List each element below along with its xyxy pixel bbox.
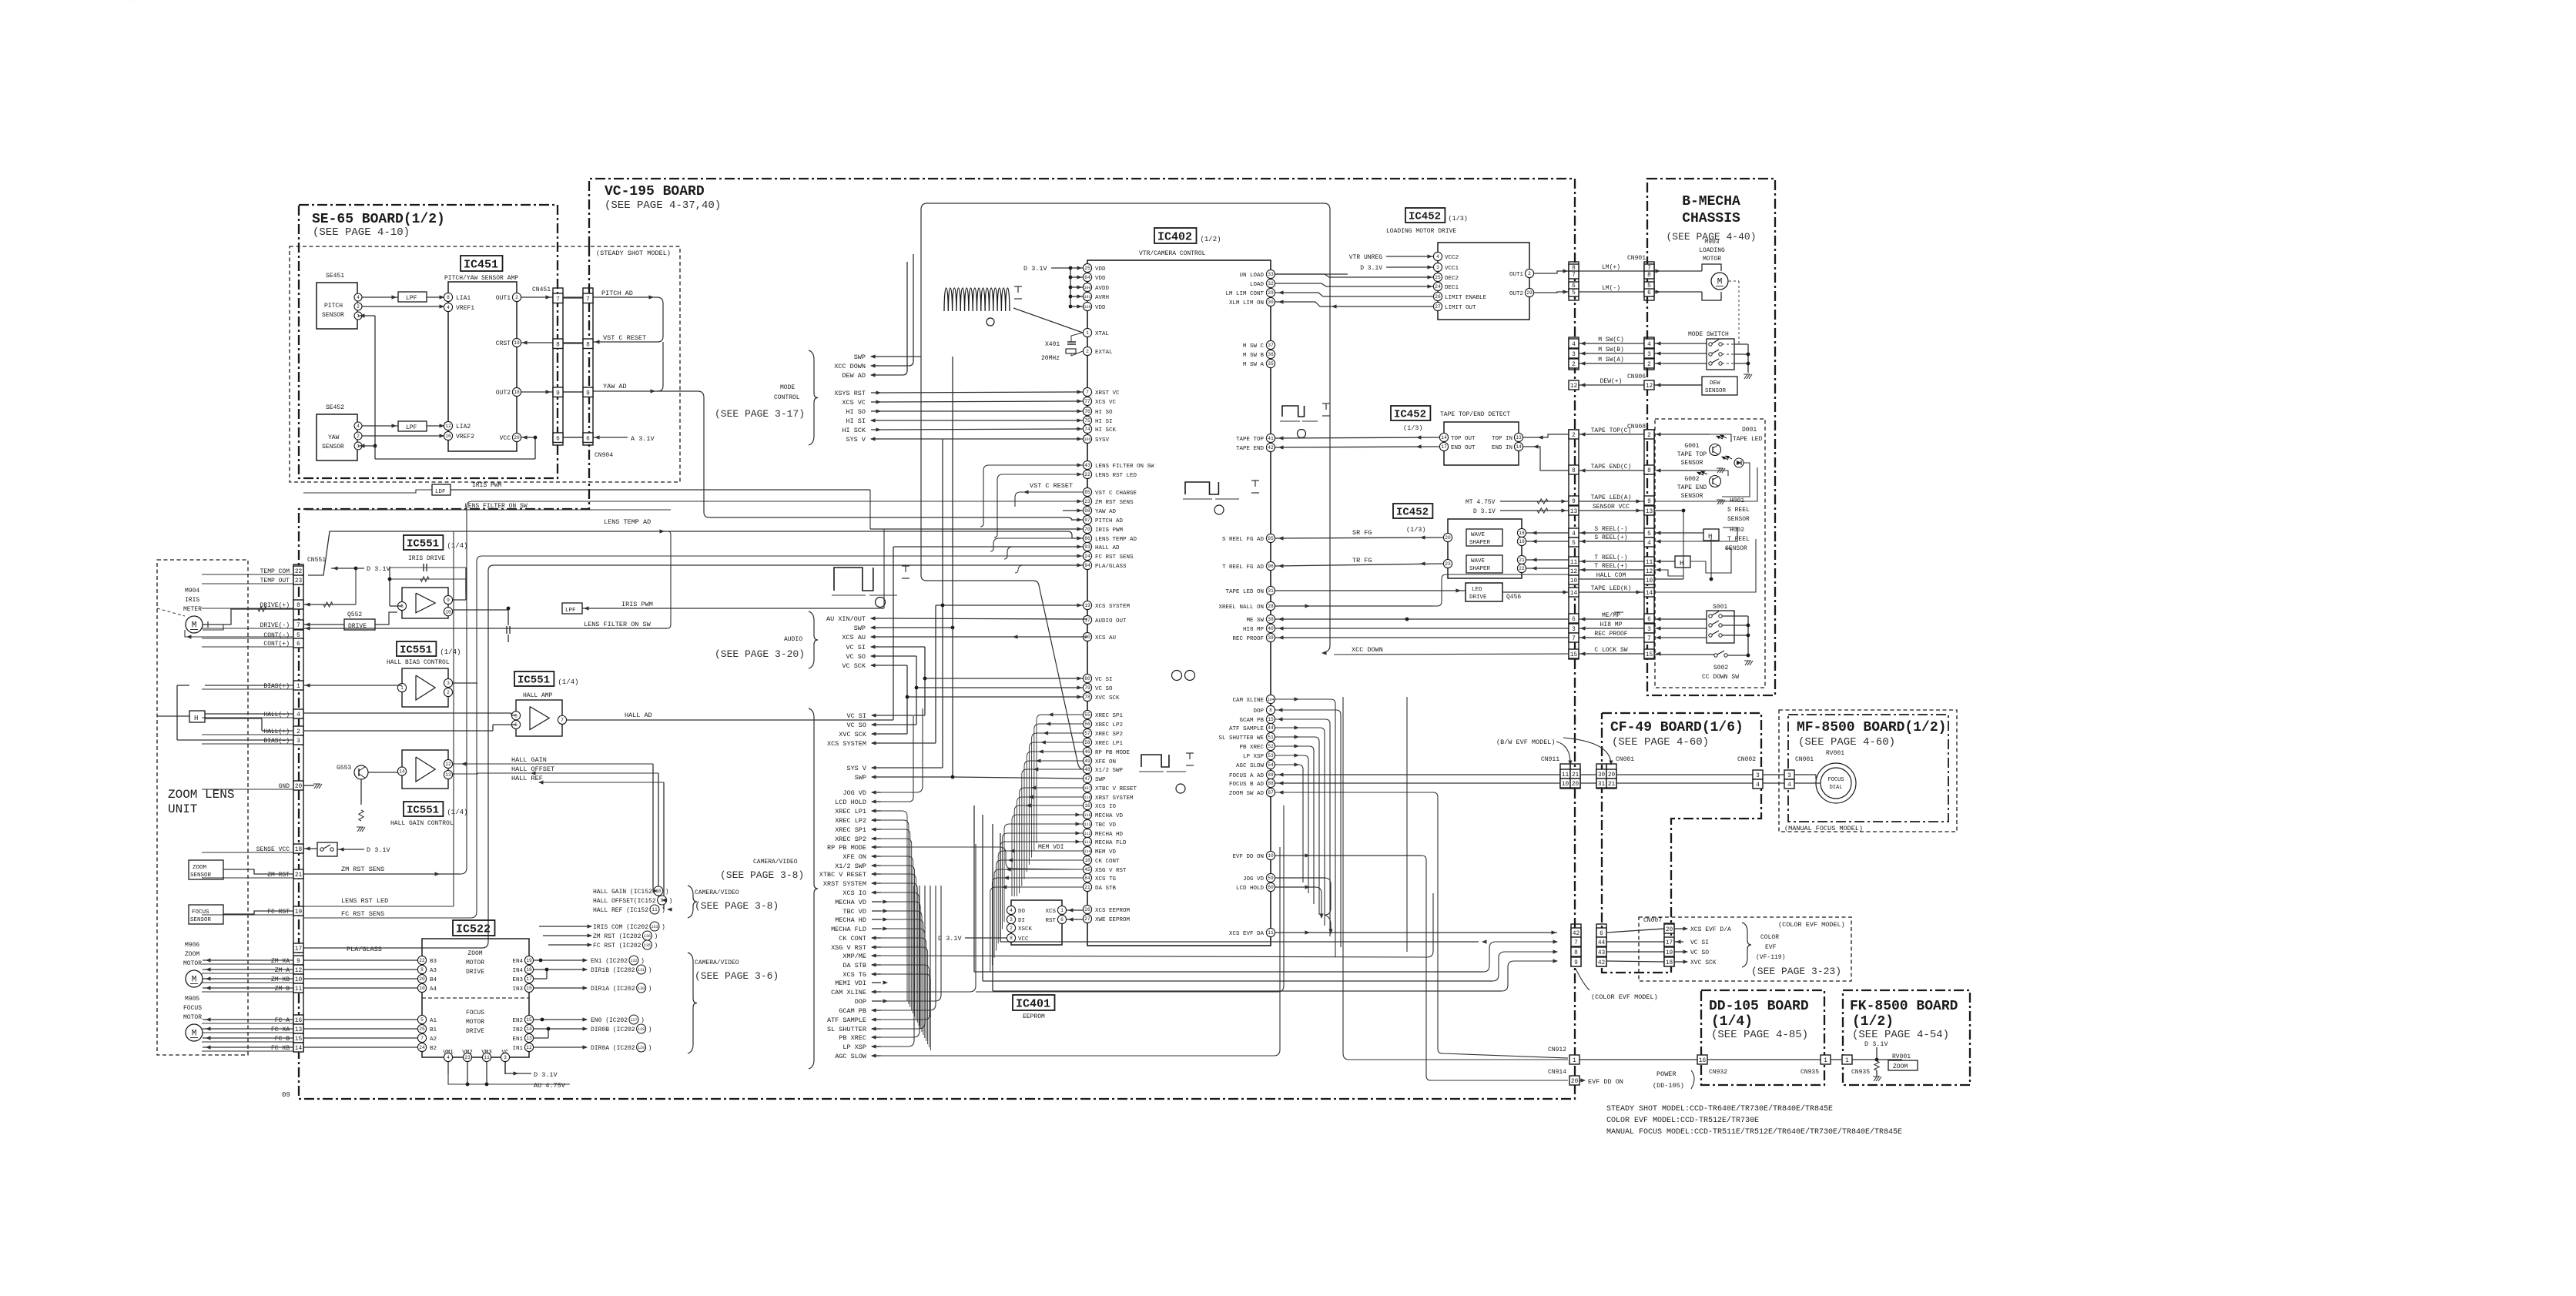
svg-text:DRIVE: DRIVE bbox=[1469, 594, 1487, 601]
svg-text:22: 22 bbox=[1084, 472, 1090, 477]
svg-text:EVF: EVF bbox=[1765, 944, 1777, 951]
svg-text:2: 2 bbox=[1572, 433, 1576, 439]
svg-text:22: 22 bbox=[419, 958, 425, 963]
svg-text:VC SO: VC SO bbox=[846, 722, 866, 729]
svg-text:JOG VD: JOG VD bbox=[1243, 876, 1265, 882]
svg-text:SWP: SWP bbox=[1095, 777, 1106, 783]
svg-text:Q552: Q552 bbox=[347, 611, 362, 618]
svg-text:TAPE LED: TAPE LED bbox=[1733, 436, 1763, 443]
svg-text:PB XREC: PB XREC bbox=[839, 1034, 866, 1042]
svg-text:AUDIO OUT: AUDIO OUT bbox=[1095, 618, 1127, 625]
svg-text:IN3: IN3 bbox=[512, 986, 523, 993]
svg-text:XFE ON: XFE ON bbox=[842, 853, 866, 861]
svg-text:B4: B4 bbox=[430, 977, 437, 983]
svg-text:STEADY SHOT MODEL:CCD-TR640E/T: STEADY SHOT MODEL:CCD-TR640E/TR730E/TR84… bbox=[1606, 1104, 1833, 1113]
svg-text:HALL GAIN CONTROL: HALL GAIN CONTROL bbox=[390, 820, 454, 827]
svg-text:8: 8 bbox=[1574, 950, 1578, 956]
svg-text:18: 18 bbox=[1666, 960, 1673, 966]
svg-text:38: 38 bbox=[1268, 617, 1274, 622]
svg-text:VST C RESET: VST C RESET bbox=[1030, 482, 1073, 490]
svg-text:20: 20 bbox=[1445, 535, 1451, 541]
svg-text:18: 18 bbox=[526, 967, 532, 973]
svg-text:EN1: EN1 bbox=[512, 1036, 523, 1043]
svg-text:2: 2 bbox=[357, 434, 360, 439]
svg-text:D 3.1V: D 3.1V bbox=[938, 935, 963, 943]
svg-text:D 3.1V: D 3.1V bbox=[1864, 1040, 1889, 1048]
svg-text:18: 18 bbox=[295, 847, 303, 853]
svg-text:19: 19 bbox=[1519, 539, 1525, 544]
svg-text:(1/3): (1/3) bbox=[1403, 424, 1423, 432]
svg-text:12: 12 bbox=[1570, 383, 1578, 390]
svg-text:TAPE END(C): TAPE END(C) bbox=[1591, 464, 1632, 471]
svg-text:SYSV: SYSV bbox=[1095, 437, 1110, 444]
svg-text:129: 129 bbox=[638, 1046, 645, 1050]
svg-text:CN912: CN912 bbox=[1548, 1047, 1566, 1053]
svg-text:3: 3 bbox=[1756, 773, 1760, 779]
svg-text:H: H bbox=[1708, 533, 1712, 541]
svg-text:LPF: LPF bbox=[406, 295, 417, 302]
svg-text:OUT1: OUT1 bbox=[496, 295, 511, 302]
svg-text:D 3.1V: D 3.1V bbox=[1360, 265, 1382, 272]
svg-text:FOCUS A AD: FOCUS A AD bbox=[1229, 773, 1265, 779]
svg-text:43: 43 bbox=[1598, 950, 1606, 956]
svg-text:10: 10 bbox=[1562, 782, 1569, 788]
svg-text:MOTOR: MOTOR bbox=[1703, 256, 1721, 263]
svg-text:SHAPER: SHAPER bbox=[1469, 540, 1491, 546]
svg-text:113: 113 bbox=[1084, 822, 1090, 827]
svg-text:DI: DI bbox=[1018, 918, 1025, 924]
svg-text:IRIS COM (IC202: IRIS COM (IC202 bbox=[593, 924, 648, 931]
svg-text:57: 57 bbox=[1084, 731, 1090, 736]
svg-text:6: 6 bbox=[296, 641, 300, 648]
svg-text:D 3.1V: D 3.1V bbox=[534, 1071, 558, 1079]
svg-text:M: M bbox=[1717, 278, 1723, 287]
svg-text:25: 25 bbox=[1084, 266, 1090, 271]
svg-text:9: 9 bbox=[1572, 499, 1576, 505]
svg-text:COLOR: COLOR bbox=[1760, 934, 1779, 941]
svg-text:MODE: MODE bbox=[780, 384, 795, 391]
svg-text:M904: M904 bbox=[185, 588, 199, 594]
svg-text:4: 4 bbox=[1787, 782, 1791, 789]
svg-text:12: 12 bbox=[526, 1045, 532, 1050]
svg-text:XSG V RST: XSG V RST bbox=[831, 944, 866, 952]
svg-text:MT 4.75V: MT 4.75V bbox=[1466, 499, 1496, 506]
svg-text:101: 101 bbox=[1084, 295, 1090, 300]
svg-text:7: 7 bbox=[420, 1036, 424, 1041]
svg-text:19: 19 bbox=[1084, 603, 1090, 608]
svg-text:IC451: IC451 bbox=[464, 259, 498, 272]
svg-text:SL SHUTTER: SL SHUTTER bbox=[827, 1026, 866, 1033]
svg-text:114: 114 bbox=[1084, 849, 1090, 854]
svg-text:XCS TG: XCS TG bbox=[842, 971, 866, 979]
svg-text:20MHz: 20MHz bbox=[1041, 355, 1060, 362]
svg-text:ZM RST SENS: ZM RST SENS bbox=[1095, 500, 1134, 506]
svg-text:IC522: IC522 bbox=[456, 923, 491, 936]
svg-text:37: 37 bbox=[1268, 343, 1274, 348]
svg-text:17: 17 bbox=[1084, 618, 1090, 623]
svg-text:EEPROM: EEPROM bbox=[1023, 1013, 1045, 1020]
svg-text:B-MECHA: B-MECHA bbox=[1682, 194, 1740, 209]
svg-text:CN932: CN932 bbox=[1709, 1069, 1727, 1076]
svg-text:14: 14 bbox=[1516, 444, 1522, 450]
svg-text:M903: M903 bbox=[1704, 239, 1719, 246]
svg-text:S REEL(-): S REEL(-) bbox=[1594, 526, 1627, 533]
svg-text:DA STB: DA STB bbox=[842, 962, 866, 969]
svg-text:HALL COM: HALL COM bbox=[1596, 572, 1626, 579]
svg-text:COLOR EVF MODEL:CCD-TR512E/TR7: COLOR EVF MODEL:CCD-TR512E/TR730E bbox=[1606, 1116, 1759, 1125]
svg-text:DA STB: DA STB bbox=[1095, 886, 1117, 892]
svg-text:M SW(A): M SW(A) bbox=[1598, 357, 1624, 363]
svg-text:3: 3 bbox=[1436, 265, 1439, 270]
svg-text:10: 10 bbox=[445, 609, 451, 615]
svg-text:HALL AMP: HALL AMP bbox=[523, 692, 553, 699]
svg-text:9: 9 bbox=[556, 391, 560, 397]
svg-text:RV001: RV001 bbox=[1826, 750, 1844, 757]
svg-text:IRIS: IRIS bbox=[185, 597, 199, 604]
svg-text:LM(-): LM(-) bbox=[1602, 285, 1620, 292]
svg-text:28: 28 bbox=[1268, 604, 1274, 609]
svg-text:SENSOR: SENSOR bbox=[1705, 388, 1727, 394]
svg-text:23: 23 bbox=[1445, 561, 1451, 567]
svg-text:7: 7 bbox=[1572, 636, 1576, 642]
svg-text:DEC1: DEC1 bbox=[1445, 285, 1459, 291]
svg-text:76: 76 bbox=[1084, 409, 1090, 414]
svg-text:SHAPER: SHAPER bbox=[1469, 566, 1491, 572]
svg-text:6: 6 bbox=[1647, 617, 1651, 623]
svg-text:10: 10 bbox=[1268, 853, 1274, 859]
svg-text:VST C CHARGE: VST C CHARGE bbox=[1095, 491, 1137, 497]
svg-text:TOP IN: TOP IN bbox=[1492, 436, 1512, 442]
svg-text:FOCUS: FOCUS bbox=[183, 1005, 202, 1012]
svg-text:XCS VC: XCS VC bbox=[842, 399, 866, 407]
svg-text:LP XSP: LP XSP bbox=[1243, 754, 1265, 760]
svg-text:(SEE PAGE 3-17): (SEE PAGE 3-17) bbox=[715, 408, 805, 420]
svg-text:VC SO: VC SO bbox=[846, 653, 866, 661]
svg-text:3: 3 bbox=[1647, 352, 1651, 358]
svg-text:ZOOM: ZOOM bbox=[185, 951, 199, 958]
svg-text:3: 3 bbox=[1647, 627, 1651, 633]
svg-text:26: 26 bbox=[1435, 294, 1441, 300]
svg-text:CN007: CN007 bbox=[1643, 917, 1662, 924]
svg-text:78: 78 bbox=[1084, 695, 1090, 700]
svg-text:4: 4 bbox=[296, 712, 300, 718]
svg-text:3: 3 bbox=[1010, 917, 1013, 923]
svg-text:TAPE LED(A): TAPE LED(A) bbox=[1591, 494, 1632, 501]
svg-text:HALL GAIN: HALL GAIN bbox=[511, 756, 547, 764]
svg-text:27: 27 bbox=[1435, 304, 1441, 310]
svg-text:AU XIN/OUT: AU XIN/OUT bbox=[826, 615, 866, 623]
svg-text:LIA2: LIA2 bbox=[456, 424, 471, 430]
svg-text:9: 9 bbox=[447, 598, 450, 603]
svg-text:13: 13 bbox=[1646, 509, 1653, 515]
svg-text:): ) bbox=[641, 958, 645, 965]
svg-text:LENS FILTER ON SW: LENS FILTER ON SW bbox=[584, 621, 652, 628]
svg-text:10: 10 bbox=[419, 986, 425, 991]
svg-text:XCS IO: XCS IO bbox=[842, 889, 866, 897]
svg-text:X1/2 SWP: X1/2 SWP bbox=[835, 862, 866, 870]
svg-text:13: 13 bbox=[526, 1036, 532, 1041]
svg-text:CN002: CN002 bbox=[1737, 756, 1756, 763]
svg-text:FC RST SENS: FC RST SENS bbox=[1095, 554, 1134, 561]
svg-text:4: 4 bbox=[447, 305, 450, 310]
svg-text:17: 17 bbox=[1441, 444, 1447, 450]
svg-text:53: 53 bbox=[1268, 753, 1274, 759]
svg-text:CN935: CN935 bbox=[1801, 1069, 1819, 1076]
svg-text:): ) bbox=[665, 889, 669, 896]
svg-text:VTR UNREG: VTR UNREG bbox=[1349, 254, 1382, 261]
svg-text:IRIS DRIVE: IRIS DRIVE bbox=[408, 555, 445, 562]
svg-text:G002: G002 bbox=[1684, 476, 1699, 483]
svg-text:M SW(C): M SW(C) bbox=[1598, 337, 1624, 343]
svg-text:XRST SYSTEM: XRST SYSTEM bbox=[1095, 795, 1134, 802]
svg-text:1: 1 bbox=[1824, 1058, 1827, 1064]
svg-text:25: 25 bbox=[419, 1026, 425, 1032]
svg-text:29: 29 bbox=[1268, 290, 1274, 296]
svg-text:24: 24 bbox=[1435, 284, 1441, 290]
svg-text:5: 5 bbox=[1572, 541, 1576, 547]
svg-text:9: 9 bbox=[1574, 960, 1578, 966]
svg-text:): ) bbox=[648, 1045, 652, 1052]
svg-text:IN4: IN4 bbox=[512, 968, 523, 974]
svg-text:95: 95 bbox=[1268, 536, 1274, 541]
svg-text:S002: S002 bbox=[1713, 665, 1728, 671]
svg-text:(COLOR EVF MODEL): (COLOR EVF MODEL) bbox=[1591, 993, 1658, 1001]
svg-text:VTR/CAMERA CONTROL: VTR/CAMERA CONTROL bbox=[1139, 250, 1206, 257]
svg-text:SENSOR: SENSOR bbox=[322, 444, 344, 450]
svg-text:PLA/GLASS: PLA/GLASS bbox=[1095, 564, 1127, 570]
svg-text:MECHA FLD: MECHA FLD bbox=[1095, 840, 1127, 846]
svg-text:96: 96 bbox=[1268, 564, 1274, 569]
svg-text:16: 16 bbox=[295, 1018, 303, 1024]
svg-text:XCS AU: XCS AU bbox=[1095, 635, 1116, 641]
svg-text:HI SCK: HI SCK bbox=[842, 427, 866, 434]
svg-text:XTAL: XTAL bbox=[1095, 331, 1110, 337]
svg-text:LDF: LDF bbox=[435, 489, 446, 495]
svg-text:(COLOR EVF MODEL): (COLOR EVF MODEL) bbox=[1778, 921, 1845, 929]
svg-text:(VF-119): (VF-119) bbox=[1756, 954, 1785, 961]
svg-text:42: 42 bbox=[1573, 931, 1580, 937]
svg-text:CF-49 BOARD(1/6): CF-49 BOARD(1/6) bbox=[1610, 720, 1744, 735]
svg-text:DRIVE: DRIVE bbox=[466, 969, 484, 976]
svg-text:MEM VDI: MEM VDI bbox=[1038, 844, 1064, 851]
svg-text:15: 15 bbox=[1646, 652, 1653, 658]
svg-text:(B/W EVF MODEL): (B/W EVF MODEL) bbox=[1496, 738, 1556, 746]
svg-text:VM1: VM1 bbox=[443, 1050, 454, 1056]
svg-text:DIR0A (IC202: DIR0A (IC202 bbox=[591, 1045, 635, 1052]
svg-text:HI SO: HI SO bbox=[846, 408, 866, 416]
svg-text:VC SO: VC SO bbox=[1690, 949, 1709, 956]
svg-text:77: 77 bbox=[1084, 399, 1090, 404]
svg-text:EN0 (IC202: EN0 (IC202 bbox=[591, 1017, 628, 1024]
svg-text:VC: VC bbox=[501, 1050, 509, 1056]
svg-text:DOP: DOP bbox=[855, 998, 866, 1006]
svg-text:XREC SP1: XREC SP1 bbox=[835, 826, 866, 834]
svg-text:FC RST (IC202: FC RST (IC202 bbox=[593, 943, 641, 949]
svg-text:VST C RESET: VST C RESET bbox=[603, 334, 646, 342]
svg-text:55: 55 bbox=[1084, 712, 1090, 718]
svg-text:XREC SP2: XREC SP2 bbox=[835, 836, 866, 843]
svg-text:ZM RST SENS: ZM RST SENS bbox=[341, 866, 384, 873]
svg-text:7: 7 bbox=[1574, 940, 1578, 946]
svg-text:AGC SLOW: AGC SLOW bbox=[835, 1053, 867, 1060]
svg-text:IC551: IC551 bbox=[518, 675, 550, 687]
svg-text:89: 89 bbox=[1268, 772, 1274, 778]
svg-text:7: 7 bbox=[561, 718, 564, 723]
svg-text:): ) bbox=[648, 967, 652, 974]
svg-text:IC401: IC401 bbox=[1016, 998, 1050, 1011]
svg-text:): ) bbox=[662, 907, 665, 914]
svg-text:29: 29 bbox=[1526, 290, 1533, 296]
svg-text:XTBC V RESET: XTBC V RESET bbox=[819, 871, 866, 879]
svg-text:DD-105 BOARD: DD-105 BOARD bbox=[1709, 999, 1809, 1014]
svg-text:4: 4 bbox=[1572, 342, 1576, 348]
svg-text:75: 75 bbox=[1084, 418, 1090, 424]
svg-text:15: 15 bbox=[526, 1017, 532, 1023]
svg-text:54: 54 bbox=[1268, 762, 1274, 768]
svg-text:2: 2 bbox=[1572, 362, 1576, 368]
svg-text:15: 15 bbox=[295, 1036, 303, 1043]
svg-text:MECHA VD: MECHA VD bbox=[835, 899, 866, 906]
svg-text:12: 12 bbox=[445, 424, 451, 429]
svg-text:60: 60 bbox=[1268, 885, 1274, 890]
svg-text:16: 16 bbox=[1699, 1058, 1707, 1064]
svg-text:LP XSP: LP XSP bbox=[842, 1043, 866, 1051]
svg-text:(SEE PAGE 3-6): (SEE PAGE 3-6) bbox=[695, 970, 779, 982]
svg-text:X401: X401 bbox=[1045, 341, 1060, 348]
svg-text:14: 14 bbox=[1646, 591, 1653, 597]
svg-text:46: 46 bbox=[1084, 749, 1090, 755]
svg-text:XSYS RST: XSYS RST bbox=[834, 390, 866, 397]
svg-text:ZOOM SW AD: ZOOM SW AD bbox=[1229, 791, 1265, 797]
svg-text:93: 93 bbox=[1084, 544, 1090, 550]
svg-text:A 3.1V: A 3.1V bbox=[631, 435, 655, 443]
svg-text:FC RST SENS: FC RST SENS bbox=[341, 910, 384, 918]
svg-text:IN2: IN2 bbox=[512, 1027, 523, 1033]
svg-text:T REEL: T REEL bbox=[1727, 536, 1750, 543]
svg-text:XREC LP2: XREC LP2 bbox=[835, 817, 866, 825]
svg-text:(1/4): (1/4) bbox=[447, 809, 467, 816]
svg-text:1: 1 bbox=[1060, 908, 1064, 913]
svg-text:SE451: SE451 bbox=[326, 273, 344, 280]
svg-text:X1/2 SWP: X1/2 SWP bbox=[1095, 768, 1124, 774]
svg-text:D 3.1V: D 3.1V bbox=[1023, 265, 1048, 273]
svg-text:41: 41 bbox=[1268, 436, 1274, 441]
svg-text:S REEL FG AD: S REEL FG AD bbox=[1222, 537, 1265, 543]
svg-text:3: 3 bbox=[1572, 352, 1576, 358]
svg-text:M SW A: M SW A bbox=[1243, 362, 1265, 368]
svg-text:70: 70 bbox=[1084, 527, 1090, 532]
svg-text:CRST: CRST bbox=[496, 340, 511, 347]
svg-text:19: 19 bbox=[526, 958, 532, 963]
svg-text:6: 6 bbox=[1647, 290, 1651, 296]
svg-text:11: 11 bbox=[295, 986, 303, 993]
svg-text:RP PB MODE: RP PB MODE bbox=[827, 844, 866, 852]
svg-text:XWE EEPROM: XWE EEPROM bbox=[1095, 917, 1131, 923]
svg-text:T REEL(+): T REEL(+) bbox=[1594, 563, 1627, 570]
svg-text:SENSOR: SENSOR bbox=[190, 872, 212, 879]
svg-text:JOG VD: JOG VD bbox=[842, 789, 866, 797]
svg-text:4: 4 bbox=[447, 1055, 450, 1060]
svg-text:11: 11 bbox=[1646, 560, 1653, 566]
svg-text:39: 39 bbox=[1268, 635, 1274, 641]
svg-text:4: 4 bbox=[1010, 908, 1013, 913]
svg-text:SENSOR: SENSOR bbox=[1681, 493, 1703, 500]
svg-text:19: 19 bbox=[295, 909, 303, 916]
svg-text:1: 1 bbox=[1086, 330, 1089, 336]
svg-text:(SEE PAGE 3-8): (SEE PAGE 3-8) bbox=[720, 869, 804, 881]
svg-text:8: 8 bbox=[1572, 468, 1576, 474]
svg-text:13: 13 bbox=[1516, 435, 1522, 440]
svg-text:11: 11 bbox=[484, 1055, 490, 1060]
svg-text:TAPE TOP(C): TAPE TOP(C) bbox=[1591, 427, 1632, 434]
svg-text:VC SO: VC SO bbox=[1095, 686, 1113, 692]
svg-text:136: 136 bbox=[644, 934, 651, 939]
svg-text:XCS EVF D/A: XCS EVF D/A bbox=[1690, 926, 1731, 933]
svg-text:RP PB MODE: RP PB MODE bbox=[1095, 750, 1131, 756]
svg-text:2: 2 bbox=[1528, 271, 1531, 276]
svg-text:42: 42 bbox=[1268, 445, 1274, 450]
svg-text:FK-8500 BOARD: FK-8500 BOARD bbox=[1850, 999, 1958, 1014]
svg-text:22: 22 bbox=[295, 569, 303, 575]
svg-text:16: 16 bbox=[1084, 803, 1090, 809]
svg-text:CN911: CN911 bbox=[1541, 756, 1559, 763]
svg-text:LPF: LPF bbox=[406, 424, 417, 431]
svg-text:20: 20 bbox=[1608, 772, 1616, 779]
svg-text:(SEE PAGE 4-60): (SEE PAGE 4-60) bbox=[1798, 736, 1895, 748]
svg-text:AVRH: AVRH bbox=[1095, 295, 1109, 301]
svg-text:24: 24 bbox=[419, 1045, 425, 1050]
svg-text:(1/4): (1/4) bbox=[1711, 1014, 1753, 1030]
svg-text:EN3: EN3 bbox=[512, 977, 523, 983]
svg-text:SENSOR: SENSOR bbox=[190, 917, 212, 923]
svg-text:OUT2: OUT2 bbox=[1509, 291, 1523, 297]
svg-text:17: 17 bbox=[526, 976, 532, 982]
svg-text:12: 12 bbox=[295, 968, 303, 974]
svg-text:LCD HOLD: LCD HOLD bbox=[1236, 886, 1265, 892]
svg-text:XCC DOWN: XCC DOWN bbox=[1352, 646, 1383, 654]
svg-text:IC452: IC452 bbox=[1396, 507, 1429, 519]
svg-text:17: 17 bbox=[295, 946, 303, 953]
svg-text:TAPE LED(K): TAPE LED(K) bbox=[1591, 585, 1632, 592]
svg-text:A1: A1 bbox=[430, 1018, 437, 1024]
svg-text:(1/4): (1/4) bbox=[558, 678, 578, 686]
svg-text:CAM XLINE: CAM XLINE bbox=[831, 989, 866, 996]
svg-text:LM LIM CONT: LM LIM CONT bbox=[1225, 291, 1264, 297]
svg-text:EN4: EN4 bbox=[512, 959, 523, 965]
svg-text:43: 43 bbox=[1084, 463, 1090, 468]
svg-text:LIMIT OUT: LIMIT OUT bbox=[1445, 305, 1476, 311]
svg-text:XLM LIM ON: XLM LIM ON bbox=[1229, 300, 1264, 306]
svg-text:LM(+): LM(+) bbox=[1602, 264, 1620, 271]
svg-text:MOTOR: MOTOR bbox=[183, 960, 202, 967]
svg-text:PITCH/YAW SENSOR AMP: PITCH/YAW SENSOR AMP bbox=[444, 275, 518, 282]
svg-text:A3: A3 bbox=[430, 968, 437, 974]
svg-text:XCS VC: XCS VC bbox=[1095, 400, 1117, 406]
svg-text:PITCH AD: PITCH AD bbox=[601, 290, 633, 297]
svg-text:REC PROOF: REC PROOF bbox=[1594, 631, 1627, 638]
svg-text:36: 36 bbox=[1268, 352, 1274, 357]
svg-text:XCS AU: XCS AU bbox=[842, 634, 866, 641]
svg-text:20: 20 bbox=[419, 976, 425, 982]
svg-text:27: 27 bbox=[1084, 916, 1090, 922]
svg-text:XREC SP1: XREC SP1 bbox=[1095, 713, 1124, 719]
svg-text:HALL AD: HALL AD bbox=[1095, 545, 1120, 551]
svg-text:86: 86 bbox=[1084, 536, 1090, 541]
svg-text:8: 8 bbox=[1269, 708, 1272, 713]
svg-text:4: 4 bbox=[357, 295, 360, 300]
svg-text:XREC SP2: XREC SP2 bbox=[1095, 732, 1123, 738]
svg-text:09: 09 bbox=[282, 1091, 290, 1099]
